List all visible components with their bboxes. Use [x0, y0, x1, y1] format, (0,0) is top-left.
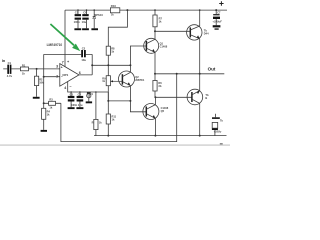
wire Q3 emitter down to out node	[199, 39, 201, 74]
svg-text:−: −	[69, 85, 72, 89]
svg-text:3b: 3b	[158, 84, 161, 88]
resistor R3 (feedback)	[44, 98, 61, 110]
wire Q4 emitter up to out node	[199, 74, 201, 91]
resistor R2 (input to ground)	[35, 69, 45, 97]
transistor Q1 (driver)	[144, 38, 168, 53]
svg-text:3: 3	[56, 65, 58, 69]
capacitor C2 10u (feedback, on top link)	[44, 46, 92, 65]
svg-text:1k: 1k	[111, 14, 114, 17]
ground (C7)	[213, 25, 221, 29]
wire op-amp output pin 6	[79, 65, 130, 75]
svg-text:OP1: OP1	[62, 73, 68, 77]
svg-text:4: 4	[64, 86, 66, 90]
node feedback tap	[176, 73, 178, 75]
power -V terminal mark	[220, 142, 223, 145]
wire Q2 collector up	[129, 65, 131, 72]
resistor R12 (V- line to rail)	[92, 92, 103, 136]
svg-text:In: In	[2, 59, 6, 63]
node rail R7	[154, 9, 156, 11]
wire Q1 collector to Q3 base	[155, 30, 190, 32]
svg-text:R1: R1	[22, 63, 26, 67]
resistor R4 (feedback shunt to ground)	[42, 108, 51, 130]
node pin2/feedback	[43, 76, 45, 78]
resistor R11 (V- node to rail)	[106, 101, 116, 136]
node dots on -V rail	[107, 135, 200, 137]
wire Q4 base line	[155, 96, 192, 98]
node Q1 base / Q2 collector	[129, 64, 131, 66]
node out	[199, 73, 201, 75]
svg-text:+100u: +100u	[214, 130, 222, 134]
transistor Q5 (lower driver)	[143, 104, 169, 120]
svg-text:6: 6	[79, 71, 81, 75]
wire feedback return (R3 to output)	[61, 74, 177, 142]
node Q5 collector / Q4 base	[154, 96, 156, 98]
node dots on V- line	[70, 91, 96, 93]
resistor R1 (series input)	[20, 63, 28, 75]
node out line left	[154, 73, 156, 75]
pin 4 label and V- marker	[64, 85, 72, 90]
node Q2 emitter / V-	[129, 100, 131, 102]
resistor R10 (rail)	[110, 4, 119, 17]
ground (D2)	[91, 28, 98, 30]
pin 6 label	[79, 71, 81, 75]
svg-text:+: +	[67, 60, 70, 64]
pin 2 label	[56, 75, 58, 79]
svg-text:C1: C1	[8, 61, 12, 65]
diode D2 (supply)	[93, 10, 104, 28]
svg-text:R: R	[92, 122, 94, 125]
node dots on +V rail	[77, 9, 95, 11]
capacitor C3 100n (V- decoupling)	[68, 92, 75, 107]
wire Q4 collector down to -V rail	[199, 103, 201, 135]
svg-text:D1: D1	[90, 92, 94, 96]
svg-text:LME49710: LME49710	[47, 43, 63, 47]
svg-text:C2: C2	[82, 46, 86, 50]
svg-text:7: 7	[62, 60, 64, 64]
wire bias column from rail	[108, 10, 127, 46]
output label Out	[208, 66, 216, 71]
diode D1 (V- clamp)	[87, 92, 94, 102]
svg-text:B: B	[205, 96, 207, 100]
svg-text:C4: C4	[78, 92, 82, 96]
page border bottom	[0, 144, 230, 146]
power +V terminal label	[219, 1, 223, 5]
ground (R4)	[41, 130, 47, 132]
wire output line	[155, 73, 224, 75]
ground (C3)	[68, 107, 75, 109]
svg-text:100n: 100n	[74, 20, 80, 24]
svg-text:R10: R10	[111, 4, 117, 8]
svg-text:Out: Out	[208, 66, 216, 71]
node input junction	[36, 68, 38, 70]
wire Q3 collector to rail	[199, 10, 201, 26]
capacitor C5 100n (supply decoupling)	[74, 10, 81, 28]
svg-text:2N5551: 2N5551	[135, 78, 145, 82]
svg-text:C3: C3	[70, 92, 74, 96]
trimpot R9 (bias lower, wiper to Q2 base)	[102, 65, 122, 101]
capacitor C8 100u (-V reservoir)	[212, 114, 223, 136]
ground (R2)	[33, 97, 40, 99]
transistor Q3 (upper output)	[187, 25, 210, 40]
node junction rail/bias column	[126, 9, 128, 11]
ground (C6)	[82, 28, 89, 30]
capacitor C4 10u (V- decoupling)	[71, 92, 83, 107]
green annotation arrow	[50, 24, 80, 51]
svg-text:Q5: Q5	[161, 109, 165, 113]
wire Q2 emitter down	[130, 86, 146, 112]
svg-text:7b: 7b	[220, 119, 223, 123]
svg-text:+: +	[61, 66, 63, 70]
wire input line to pin 3	[3, 68, 60, 70]
svg-text:C1408: C1408	[160, 44, 168, 48]
svg-text:1k: 1k	[22, 72, 25, 76]
node bias column on output line	[107, 64, 109, 66]
ground (D1)	[86, 101, 92, 103]
resistor R7 (Q1 collector load)	[153, 10, 163, 39]
wire V- node to Q2 emitter	[108, 100, 130, 102]
node Q1 collector / Q3 base	[154, 30, 156, 32]
capacitor C6 10u (supply decoupling)	[82, 10, 89, 28]
wire pin 4 V- feed	[68, 81, 109, 101]
node feedback/R3	[43, 102, 45, 104]
svg-text:4.7u: 4.7u	[7, 74, 13, 78]
ground (C4)	[76, 107, 83, 109]
svg-text:D44: D44	[204, 31, 209, 35]
transistor Q2 (VAS)	[119, 71, 145, 87]
resistor R8 (bias upper)	[106, 46, 115, 65]
wire Q1 emitter to out line	[154, 52, 156, 73]
svg-text:1k: 1k	[49, 105, 52, 109]
svg-text:MPS10: MPS10	[94, 13, 103, 17]
input terminal label In	[2, 59, 6, 63]
wire Q1 base	[130, 46, 146, 65]
svg-text:C5: C5	[75, 11, 79, 15]
wire +V top rail	[65, 9, 227, 11]
svg-text:1k: 1k	[102, 80, 105, 83]
svg-text:1k: 1k	[99, 122, 102, 125]
transistor Q4 (lower output)	[187, 89, 209, 105]
op-amp U1 LME49710 label	[47, 43, 63, 47]
node output of op-amp	[91, 64, 93, 66]
wire feedback vertical	[43, 54, 45, 108]
wire pin 2 to feedback node	[44, 76, 60, 78]
wire op-amp V+ vertical (rail to pin 7)	[64, 10, 66, 67]
svg-text:10u: 10u	[82, 20, 87, 24]
capacitor C1 (input coupling)	[7, 61, 13, 78]
svg-text:C7: C7	[217, 11, 221, 15]
ground (C5)	[74, 28, 81, 30]
pin 7 V+ marker	[62, 60, 70, 65]
op-amp U1 triangle OP1	[60, 64, 79, 87]
capacitor C7 100uF (+V to ground)	[212, 10, 222, 25]
node Q3 collector rail	[199, 9, 201, 11]
node rail / C7	[215, 9, 217, 11]
svg-text:+100uF: +100uF	[212, 20, 222, 24]
wire Q5 emitter to -V rail	[154, 118, 156, 135]
pin 3 label	[56, 65, 58, 69]
svg-text:−: −	[61, 75, 63, 79]
svg-text:R3: R3	[49, 98, 53, 102]
svg-text:100n 10u: 100n 10u	[71, 103, 83, 107]
node V- junction	[107, 100, 109, 102]
svg-text:C6: C6	[83, 11, 87, 15]
wire Q5 collector up	[154, 97, 156, 104]
wire -V bottom rail	[94, 135, 227, 137]
svg-text:10u: 10u	[81, 58, 86, 62]
resistor R6 (out line to Q5 collector)	[153, 74, 162, 98]
